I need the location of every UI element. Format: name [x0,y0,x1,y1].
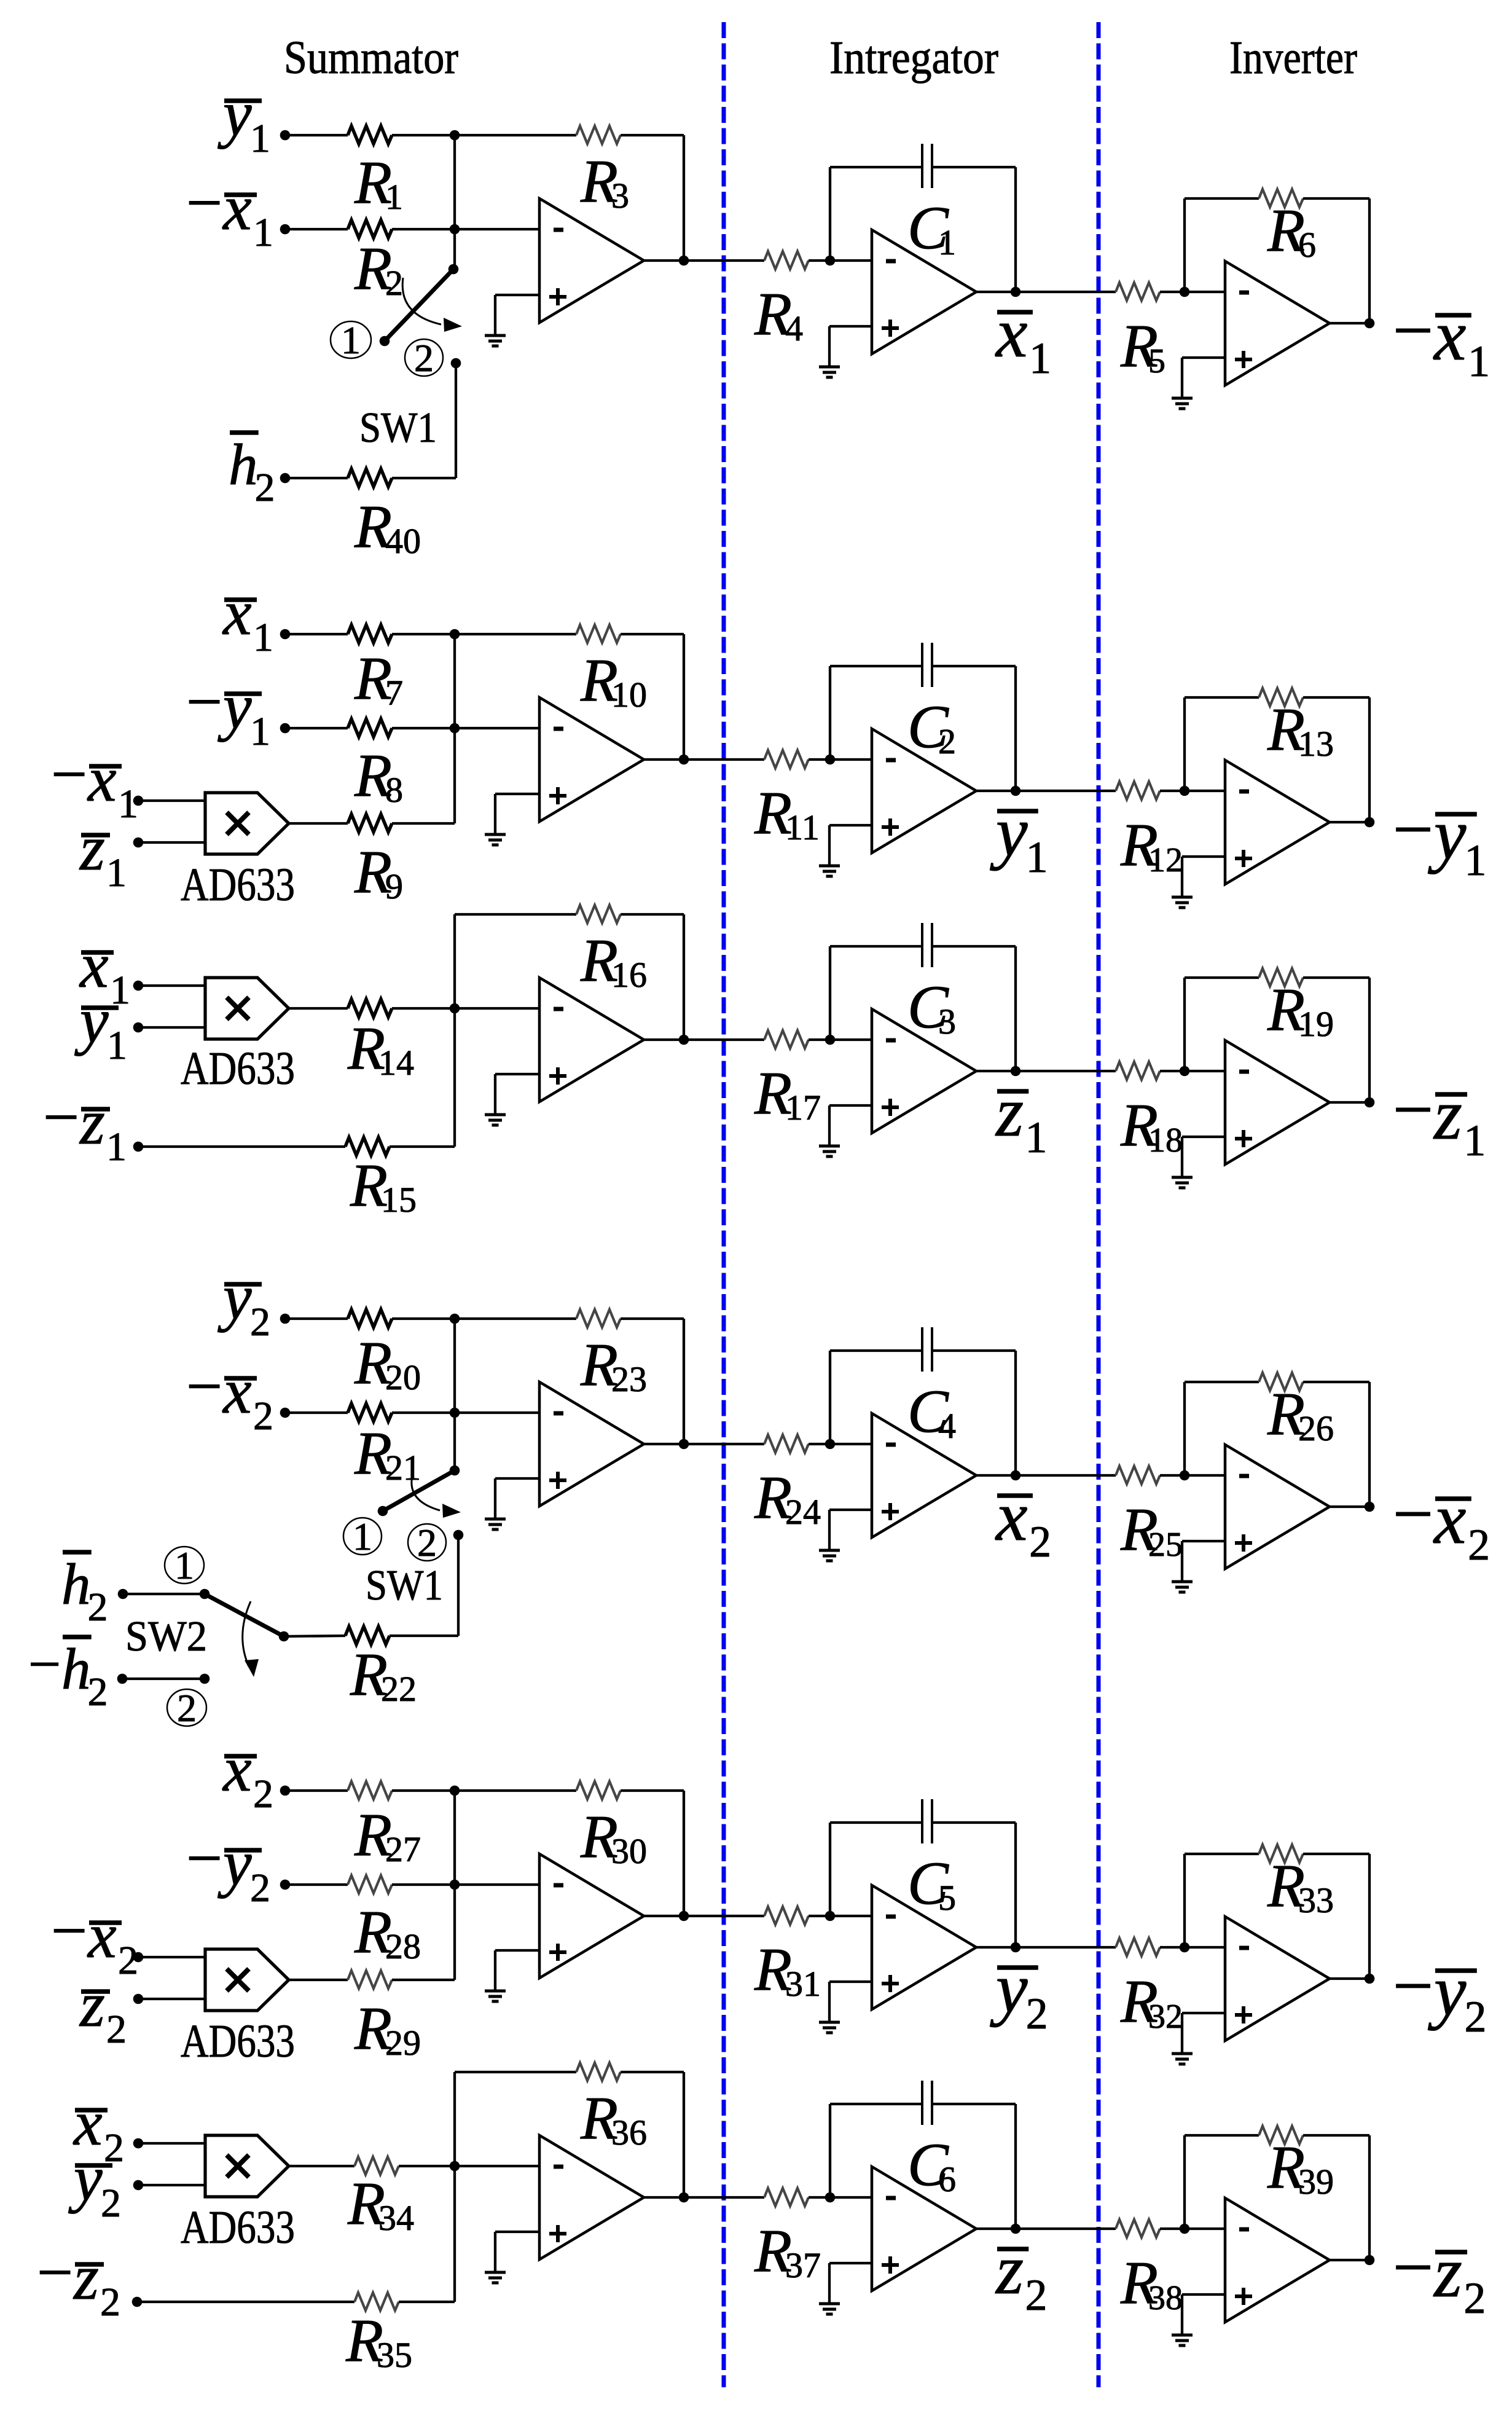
svg-text:1: 1 [938,222,956,262]
svg-text:y: y [990,793,1028,871]
svg-text:28: 28 [385,1926,421,1966]
svg-text:y: y [74,984,109,1056]
svg-text:−: − [186,167,222,238]
svg-text:SW1: SW1 [366,1562,443,1609]
svg-text:1: 1 [250,709,270,754]
svg-text:4: 4 [785,308,803,348]
svg-text:3: 3 [938,1002,956,1042]
svg-text:Summator: Summator [284,32,458,84]
svg-text:x: x [87,1899,117,1971]
svg-text:32: 32 [1148,1998,1183,2036]
svg-text:2: 2 [101,2181,121,2226]
svg-text:h: h [61,1552,91,1617]
svg-text:4: 4 [938,1406,956,1446]
svg-text:SW1: SW1 [359,404,437,452]
svg-text:2: 2 [1026,1989,1048,2038]
svg-text:2: 2 [1025,2271,1048,2320]
svg-text:y: y [1428,794,1467,874]
svg-text:y: y [1428,1950,1467,2031]
svg-text:29: 29 [385,2023,421,2063]
svg-text:2: 2 [1468,1520,1490,1569]
svg-text:33: 33 [1298,1880,1334,1920]
svg-text:z: z [1433,1074,1462,1155]
svg-text:22: 22 [381,1669,417,1709]
svg-text:5: 5 [1148,342,1165,380]
svg-text:6: 6 [1298,225,1316,265]
svg-text:1: 1 [253,615,273,660]
svg-text:1: 1 [1464,836,1486,885]
svg-text:AD633: AD633 [181,2202,295,2253]
svg-text:−: − [28,1631,61,1697]
svg-text:2: 2 [88,1585,108,1630]
svg-text:2: 2 [417,1521,437,1564]
svg-text:SW2: SW2 [125,1613,207,1660]
svg-text:3: 3 [611,176,629,216]
svg-text:36: 36 [611,2113,647,2153]
svg-text:2: 2 [253,1394,273,1439]
svg-text:z: z [995,1073,1024,1152]
svg-text:z: z [79,1086,105,1158]
svg-text:−: − [1393,1945,1434,2026]
svg-text:z: z [72,2241,99,2313]
svg-text:h: h [61,1636,91,1702]
svg-text:2: 2 [1463,2274,1486,2323]
svg-text:−: − [43,1081,79,1153]
svg-text:1: 1 [1029,334,1051,383]
svg-text:z: z [79,812,105,884]
svg-text:x: x [995,1477,1028,1556]
svg-text:26: 26 [1298,1408,1334,1448]
svg-text:2: 2 [88,1670,108,1714]
svg-text:AD633: AD633 [181,1043,295,1094]
svg-text:1: 1 [106,1125,127,1169]
svg-text:−: − [186,1822,222,1894]
svg-text:7: 7 [385,673,403,713]
svg-text:34: 34 [378,2198,414,2238]
svg-text:2: 2 [1029,1517,1051,1566]
svg-text:x: x [222,1355,252,1427]
svg-text:2: 2 [177,1686,197,1730]
svg-text:y: y [217,1261,252,1333]
svg-text:x: x [995,294,1028,372]
svg-text:−: − [1393,789,1434,869]
svg-text:9: 9 [385,866,403,906]
svg-text:h: h [229,432,258,497]
svg-text:31: 31 [785,1964,821,2004]
svg-text:35: 35 [377,2335,412,2375]
svg-text:20: 20 [385,1357,421,1397]
svg-text:2: 2 [1464,1992,1486,2041]
svg-text:1: 1 [107,1023,127,1068]
svg-text:1: 1 [341,318,361,362]
svg-text:z: z [995,2231,1024,2309]
svg-text:5: 5 [938,1878,956,1918]
svg-text:Inverter: Inverter [1229,32,1357,84]
svg-text:AD633: AD633 [181,2016,295,2067]
svg-text:1: 1 [1025,1113,1048,1162]
svg-text:39: 39 [1298,2162,1334,2202]
svg-text:25: 25 [1148,1526,1183,1564]
svg-text:6: 6 [938,2159,956,2199]
svg-text:−: − [1393,1069,1434,1150]
svg-text:x: x [222,1733,252,1805]
svg-text:y: y [990,1949,1028,2028]
svg-text:21: 21 [385,1448,421,1488]
svg-text:8: 8 [385,770,403,810]
svg-text:z: z [79,1968,105,2040]
svg-text:−: − [1393,2227,1434,2307]
svg-text:−: − [186,1350,222,1422]
svg-text:2: 2 [100,2280,120,2325]
svg-text:y: y [217,1827,252,1899]
svg-text:30: 30 [611,1831,647,1871]
svg-text:1: 1 [1463,1116,1486,1165]
svg-text:y: y [68,2142,103,2214]
svg-text:2: 2 [250,1866,270,1910]
svg-text:1: 1 [174,1544,194,1587]
svg-text:1: 1 [385,177,403,217]
svg-text:2: 2 [255,465,275,510]
svg-text:19: 19 [1298,1004,1334,1044]
svg-text:2: 2 [253,1772,273,1816]
svg-text:1: 1 [353,1515,372,1558]
svg-text:1: 1 [106,850,127,895]
svg-text:y: y [217,77,252,149]
svg-text:24: 24 [785,1492,821,1532]
svg-text:x: x [222,171,252,243]
svg-text:x: x [1433,1478,1466,1559]
svg-text:10: 10 [611,675,647,715]
svg-text:12: 12 [1148,841,1183,879]
svg-text:27: 27 [385,1829,421,1869]
svg-text:38: 38 [1148,2279,1183,2317]
svg-text:y: y [217,670,252,742]
svg-text:17: 17 [785,1088,821,1128]
svg-text:1: 1 [253,210,273,255]
svg-text:15: 15 [381,1180,417,1220]
svg-text:−: − [51,738,87,810]
svg-text:11: 11 [785,807,820,847]
svg-text:AD633: AD633 [181,859,295,911]
svg-text:1: 1 [1026,833,1048,882]
svg-text:−: − [1393,1474,1434,1554]
svg-text:−: − [51,1894,87,1966]
svg-text:−: − [186,665,222,737]
svg-text:Intregator: Intregator [829,32,998,84]
svg-text:2: 2 [385,263,403,303]
svg-text:2: 2 [414,336,434,380]
svg-text:1: 1 [250,116,270,161]
svg-text:18: 18 [1148,1121,1183,1160]
svg-text:13: 13 [1298,724,1334,764]
svg-text:−: − [37,2236,73,2308]
svg-text:2: 2 [250,1300,270,1344]
svg-text:−: − [1393,290,1434,371]
svg-text:40: 40 [385,521,421,561]
svg-text:23: 23 [611,1359,647,1399]
svg-text:x: x [1433,295,1466,375]
svg-text:14: 14 [378,1043,414,1083]
svg-text:1: 1 [1468,337,1490,386]
svg-text:2: 2 [106,2007,127,2052]
svg-text:16: 16 [611,955,647,995]
svg-text:37: 37 [785,2245,821,2285]
svg-text:z: z [1433,2232,1462,2312]
svg-text:x: x [87,743,117,815]
svg-text:x: x [222,576,252,648]
svg-text:2: 2 [938,721,956,761]
